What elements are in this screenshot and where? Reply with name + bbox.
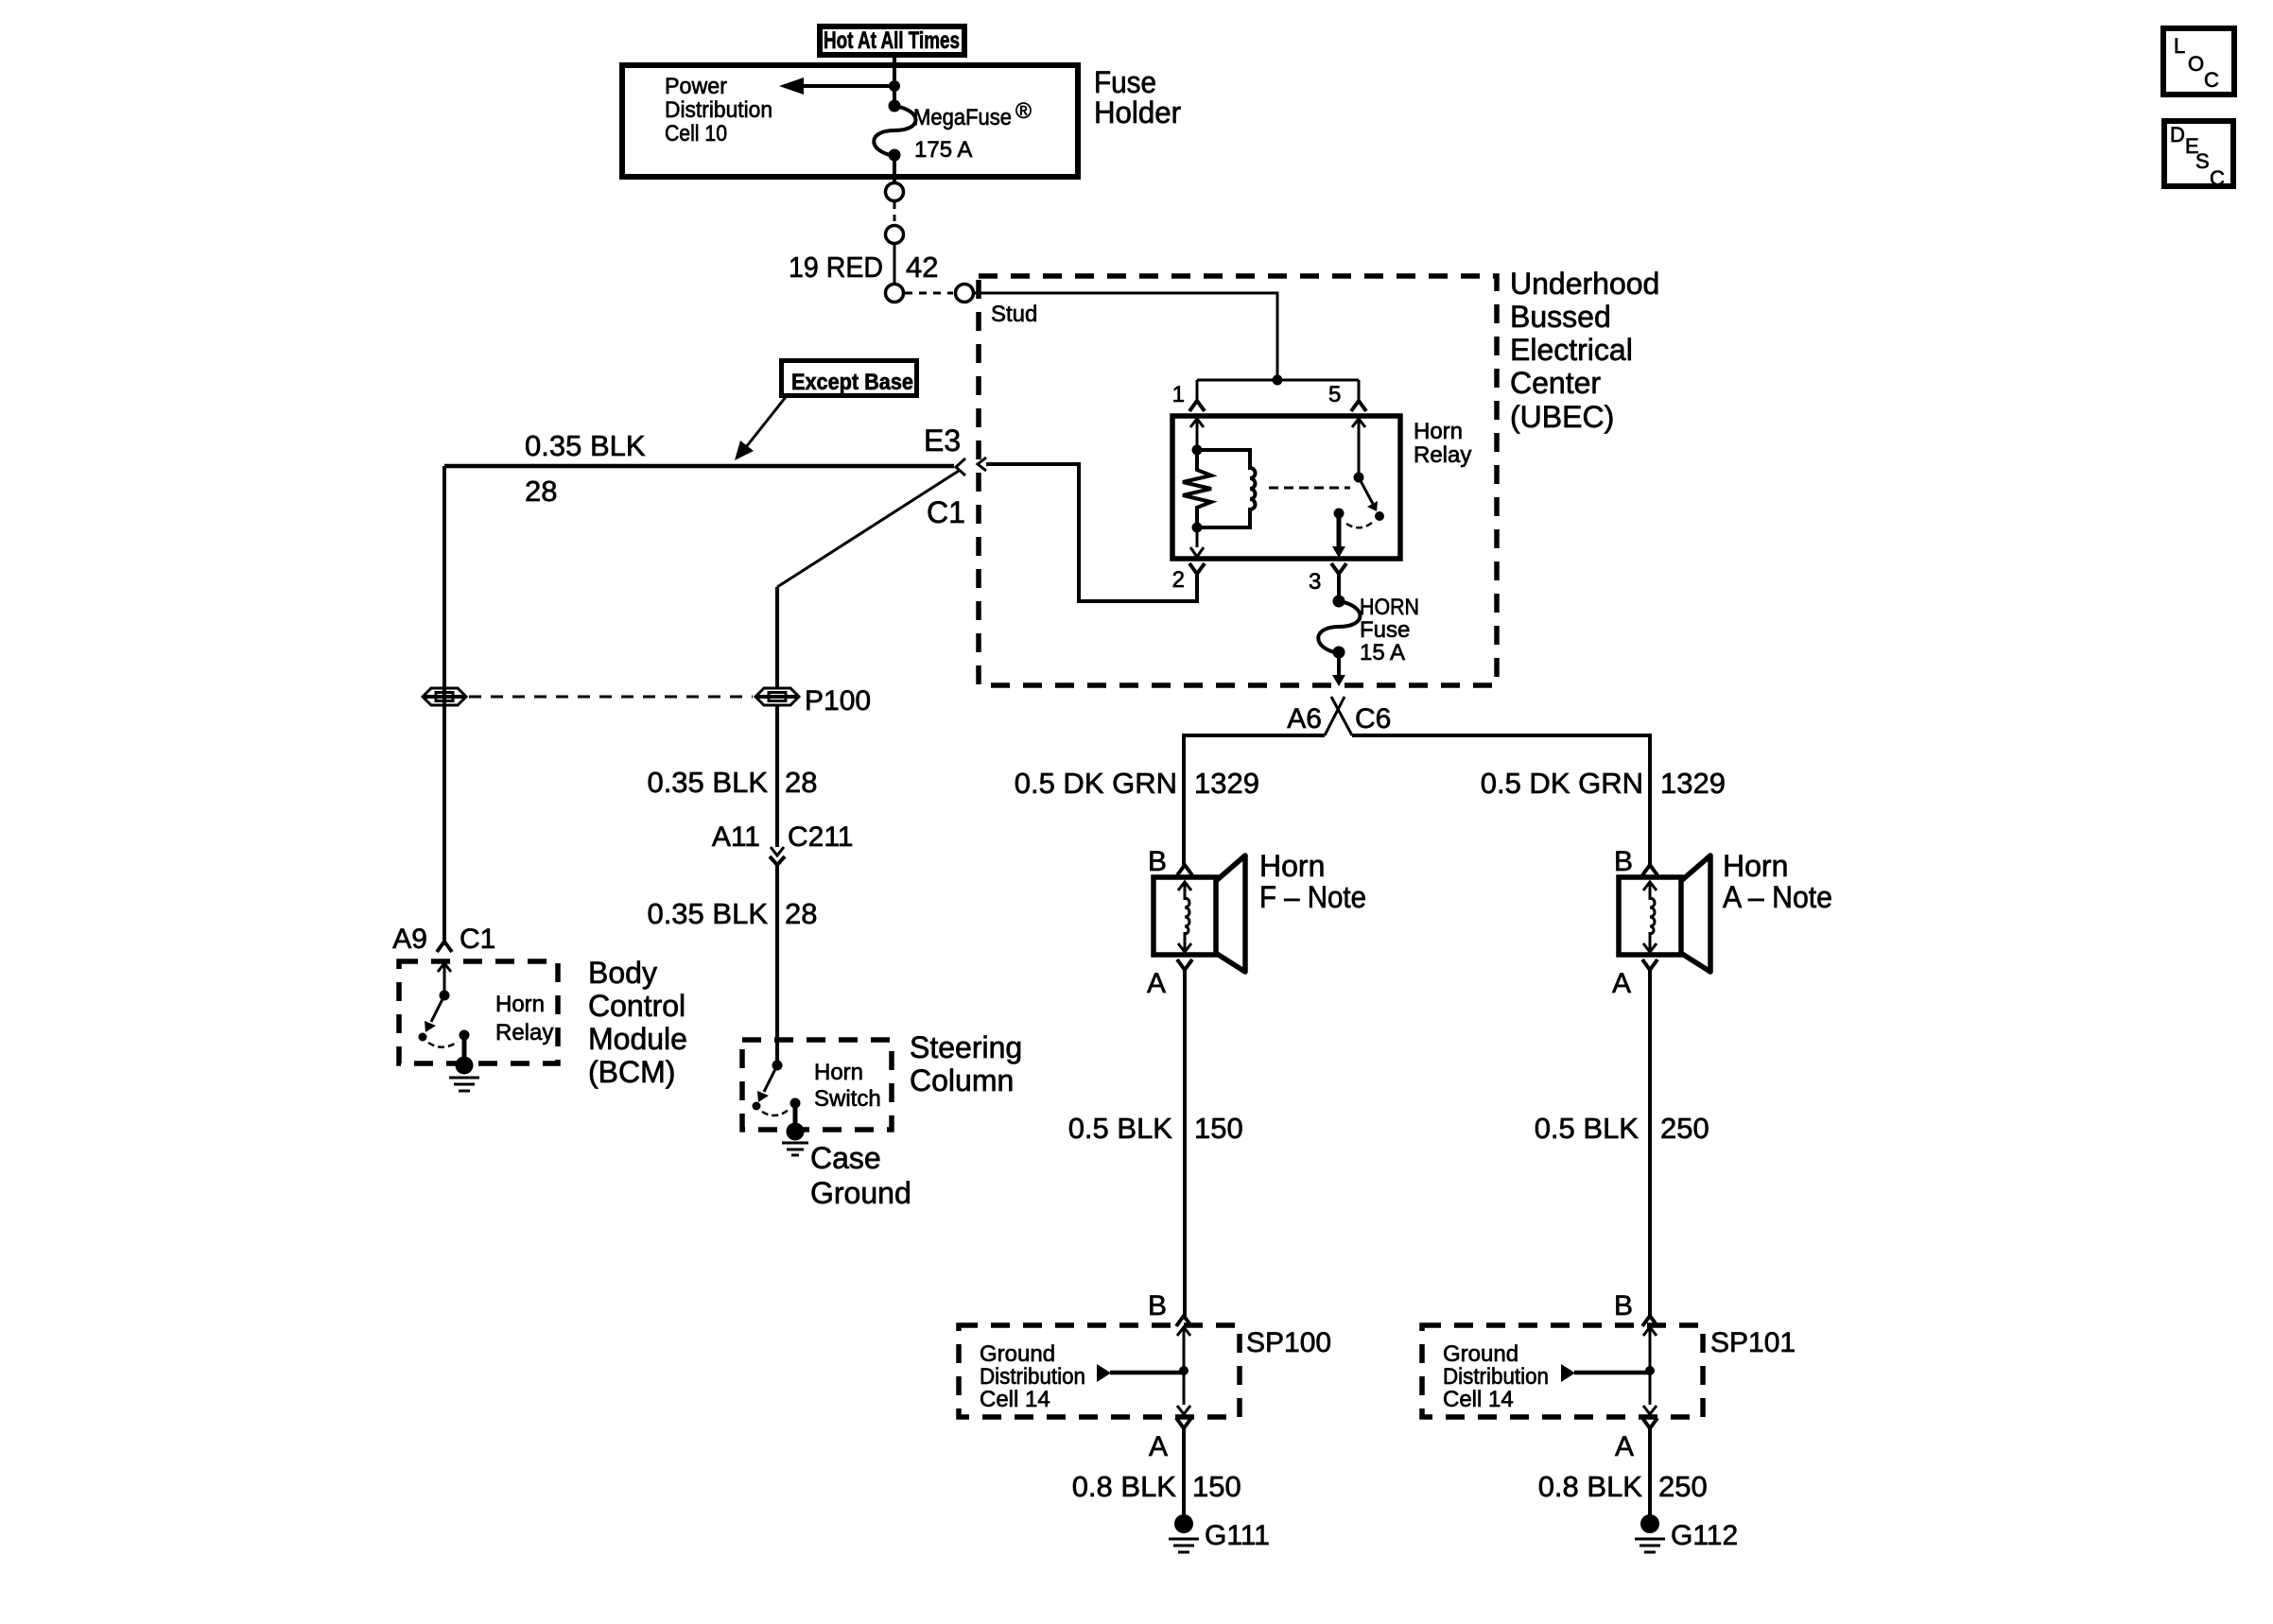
svg-text:B: B	[1148, 846, 1167, 877]
svg-text:3: 3	[1309, 569, 1321, 595]
svg-text:Cell 10: Cell 10	[665, 121, 727, 147]
svg-text:0.5 DK GRN: 0.5 DK GRN	[1481, 767, 1643, 800]
svg-text:Center: Center	[1510, 366, 1601, 400]
svg-text:Steering: Steering	[910, 1030, 1022, 1064]
svg-text:A: A	[1147, 968, 1166, 999]
svg-text:HORN: HORN	[1360, 595, 1419, 620]
svg-text:Distribution: Distribution	[980, 1364, 1085, 1390]
svg-text:A – Note: A – Note	[1723, 880, 1832, 914]
svg-text:B: B	[1614, 1290, 1633, 1322]
svg-text:A: A	[1615, 1431, 1634, 1462]
svg-text:A11: A11	[712, 821, 760, 853]
svg-text:P100: P100	[805, 685, 871, 717]
svg-text:42: 42	[906, 251, 938, 284]
svg-text:C: C	[2210, 166, 2225, 190]
svg-text:Distribution: Distribution	[665, 97, 772, 123]
svg-text:C1: C1	[927, 495, 965, 529]
svg-text:Stud: Stud	[991, 302, 1037, 327]
svg-text:G112: G112	[1671, 1520, 1738, 1551]
svg-text:D: D	[2170, 123, 2185, 147]
svg-text:Horn: Horn	[814, 1060, 863, 1085]
svg-text:Horn: Horn	[1259, 849, 1325, 883]
svg-text:(BCM): (BCM)	[588, 1055, 675, 1089]
svg-text:C211: C211	[788, 821, 854, 853]
svg-text:G111: G111	[1205, 1520, 1270, 1551]
svg-text:®: ®	[1015, 98, 1032, 123]
svg-text:150: 150	[1192, 1470, 1241, 1503]
svg-text:5: 5	[1328, 382, 1341, 407]
svg-text:150: 150	[1194, 1112, 1243, 1145]
svg-text:L: L	[2174, 34, 2185, 58]
svg-text:250: 250	[1660, 1112, 1709, 1145]
svg-text:(UBEC): (UBEC)	[1510, 400, 1614, 434]
svg-text:Fuse: Fuse	[1360, 617, 1410, 643]
svg-text:15 A: 15 A	[1360, 640, 1405, 665]
svg-text:A9: A9	[392, 924, 427, 955]
svg-text:1: 1	[1172, 382, 1185, 407]
svg-text:19 RED: 19 RED	[789, 251, 883, 284]
svg-text:Relay: Relay	[1414, 442, 1471, 468]
svg-text:Holder: Holder	[1094, 95, 1181, 130]
svg-text:Ground: Ground	[810, 1176, 911, 1210]
svg-text:SP100: SP100	[1246, 1327, 1331, 1358]
svg-text:0.5 BLK: 0.5 BLK	[1068, 1112, 1173, 1145]
svg-text:A: A	[1612, 968, 1631, 999]
svg-text:F – Note: F – Note	[1259, 880, 1366, 914]
svg-text:Hot At All Times: Hot At All Times	[824, 27, 960, 54]
svg-text:0.5 BLK: 0.5 BLK	[1535, 1112, 1640, 1145]
svg-text:28: 28	[525, 475, 557, 508]
svg-text:Electrical: Electrical	[1510, 333, 1633, 367]
svg-text:C1: C1	[460, 924, 495, 955]
svg-text:E3: E3	[924, 423, 961, 458]
svg-text:Ground: Ground	[1443, 1341, 1518, 1367]
svg-text:Ground: Ground	[980, 1341, 1055, 1367]
svg-text:Underhood: Underhood	[1510, 267, 1659, 301]
svg-text:Module: Module	[588, 1022, 687, 1056]
svg-text:0.8 BLK: 0.8 BLK	[1072, 1470, 1177, 1503]
svg-text:1329: 1329	[1660, 767, 1726, 800]
svg-text:B: B	[1614, 846, 1633, 877]
svg-text:Switch: Switch	[814, 1086, 881, 1112]
svg-text:Column: Column	[910, 1063, 1014, 1097]
svg-text:Cell 14: Cell 14	[1443, 1387, 1514, 1412]
svg-text:Case: Case	[810, 1141, 881, 1175]
svg-text:O: O	[2188, 52, 2204, 76]
svg-text:0.35 BLK: 0.35 BLK	[647, 897, 768, 930]
svg-text:Horn: Horn	[1723, 849, 1788, 883]
svg-text:Fuse: Fuse	[1094, 65, 1156, 99]
svg-text:C: C	[2204, 68, 2219, 92]
svg-text:Control: Control	[588, 989, 685, 1023]
svg-text:Relay: Relay	[495, 1020, 553, 1045]
svg-text:Cell 14: Cell 14	[980, 1387, 1050, 1412]
svg-text:Except Base: Except Base	[791, 370, 913, 395]
svg-text:Bussed: Bussed	[1510, 300, 1611, 334]
svg-text:0.35 BLK: 0.35 BLK	[525, 429, 646, 462]
svg-text:S: S	[2195, 149, 2210, 173]
svg-text:SP101: SP101	[1710, 1327, 1796, 1358]
svg-text:250: 250	[1658, 1470, 1708, 1503]
svg-text:28: 28	[785, 766, 817, 799]
svg-text:Horn: Horn	[495, 992, 545, 1017]
svg-text:Power: Power	[665, 74, 727, 99]
svg-text:0.8 BLK: 0.8 BLK	[1538, 1470, 1643, 1503]
svg-text:0.35 BLK: 0.35 BLK	[647, 766, 768, 799]
svg-text:A: A	[1149, 1431, 1168, 1462]
svg-text:Body: Body	[588, 956, 657, 990]
svg-text:C6: C6	[1355, 703, 1391, 734]
svg-text:175 A: 175 A	[914, 137, 972, 163]
svg-text:1329: 1329	[1194, 767, 1259, 800]
svg-text:28: 28	[785, 897, 817, 930]
svg-text:B: B	[1148, 1290, 1167, 1322]
svg-text:Horn: Horn	[1414, 419, 1463, 444]
svg-text:0.5 DK GRN: 0.5 DK GRN	[1015, 767, 1177, 800]
svg-text:A6: A6	[1287, 703, 1322, 734]
svg-text:2: 2	[1172, 567, 1185, 593]
svg-text:Distribution: Distribution	[1443, 1364, 1549, 1390]
svg-text:MegaFuse: MegaFuse	[913, 105, 1012, 130]
